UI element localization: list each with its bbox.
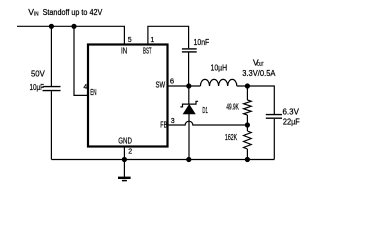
svg-text:4: 4 xyxy=(83,84,87,91)
svg-text:SW: SW xyxy=(156,81,166,90)
svg-text:3: 3 xyxy=(171,118,175,125)
svg-text:10µH: 10µH xyxy=(211,63,228,73)
svg-text:162K: 162K xyxy=(225,132,237,142)
svg-text:Standoff up to 42V: Standoff up to 42V xyxy=(43,7,103,17)
svg-text:10µF: 10µF xyxy=(30,82,44,92)
svg-text:22µF: 22µF xyxy=(283,117,300,127)
svg-text:6.3V: 6.3V xyxy=(283,107,300,117)
svg-text:1: 1 xyxy=(150,37,154,44)
svg-text:EN: EN xyxy=(90,88,96,97)
svg-text:IN: IN xyxy=(34,11,39,17)
svg-text:49.9K: 49.9K xyxy=(226,102,239,112)
svg-text:D1: D1 xyxy=(202,105,208,115)
svg-text:IN: IN xyxy=(121,46,127,55)
svg-text:6: 6 xyxy=(170,77,174,86)
svg-text:2: 2 xyxy=(128,149,132,156)
svg-text:5: 5 xyxy=(128,37,132,44)
svg-text:10nF: 10nF xyxy=(194,37,210,47)
svg-text:3.3V/0.5A: 3.3V/0.5A xyxy=(242,68,276,78)
svg-text:BST: BST xyxy=(143,46,152,55)
svg-text:50V: 50V xyxy=(31,69,45,79)
svg-text:FB: FB xyxy=(160,121,167,130)
svg-text:GND: GND xyxy=(118,137,132,146)
svg-text:OUT: OUT xyxy=(257,62,264,68)
